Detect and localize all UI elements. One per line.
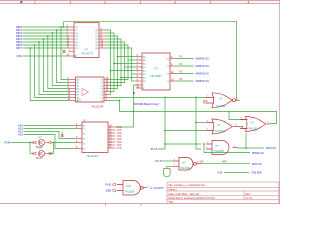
junction MD5 [38,41,40,43]
wire U5B out to U6 in2 [239,127,246,129]
sheet frame right edge [279,1,281,204]
junction MD3 [47,35,49,37]
wire to U5B input 1 [196,122,206,124]
wire net WR to U5 input [111,97,208,99]
U3 right pin name tags [117,126,122,150]
svg-text:WR: WR [200,161,204,164]
wire net RD long [120,101,230,112]
svg-text:2: 2 [104,0,106,4]
wire stub U5A in2 [203,102,206,104]
svg-text:PU.8: PU.8 [155,159,162,163]
wire rail 7 to U4 [132,80,136,82]
svg-text:74LS32: 74LS32 [215,129,225,133]
svg-text:A_CS-N0T: A_CS-N0T [150,186,164,190]
svg-text:PU8: PU8 [5,141,11,145]
wire PU8 to Q1 [11,142,31,144]
svg-text:MWR=JC: MWR=JC [252,151,264,155]
wire MD7 to U2 [30,48,68,101]
svg-text:NPL: NPL [17,54,23,58]
junction tap [203,143,205,145]
junction rail 4 [110,70,112,72]
svg-text:MD7: MD7 [16,46,22,50]
svg-text:U?: U? [78,98,82,102]
U4 strobe NC mark [133,92,135,94]
svg-text:KiCad E.D.A. eeschema (2013-0: KiCad E.D.A. eeschema (2013-07-07-bzr) [169,197,216,200]
junction feeder B in2 [164,130,166,132]
wire feeder x165 upper [164,98,166,131]
U3 left pin numbers [76,124,78,149]
wire A13 to U3 [24,128,76,130]
wire MD1 to U1 [23,29,69,31]
wire jog to U6 input 1 [229,112,246,120]
wire NPL to U1 clock [23,55,69,57]
svg-text:U?: U? [154,67,158,71]
U4 left pins [136,57,143,89]
svg-text:74LS273: 74LS273 [81,51,93,55]
wire U7 out up [245,133,247,148]
wire A12 to U3 [24,132,76,139]
junction Y7 [119,100,121,102]
wire cup to U8 in2 [167,166,173,168]
wire U4 Y3 [177,80,194,82]
sheet frame bottom line [0,204,280,206]
junction PU8 tap [164,143,166,145]
U2 left pins [69,80,76,101]
wire MD1 to U2 [57,30,69,83]
svg-text:Rev:: Rev: [246,193,251,196]
svg-text:BC307: BC307 [36,158,44,160]
transistor Q1 cluster upper [30,141,36,144]
U3 NC flag [61,135,64,138]
U4 right pin numbers [171,57,174,82]
gate U9 74LS00 [117,181,147,196]
wire U4 pin15 down [134,85,136,112]
U3 left pins [75,126,82,149]
wire A.B to JTB.MW [224,172,249,174]
wire to label PU.8 [158,144,165,149]
svg-text:U?: U? [217,123,221,127]
wire rail 0 to U4 [118,56,136,58]
title block [167,182,279,204]
wire MD3 to U1 [23,35,69,37]
junction MD1 [56,29,58,31]
wire A14 to U3 [24,125,76,127]
svg-text:U?: U? [215,144,219,148]
wire U1 Q4 down to U2 [106,42,125,83]
U1 right pin names [95,30,99,50]
svg-text:MWD1=JC: MWD1=JC [196,64,210,68]
wire U4 Y1 [177,65,194,67]
wire Q2 join [53,143,55,154]
svg-text:U?: U? [219,97,223,101]
wire U3 O0 up [115,112,134,128]
transistor Q2 cluster lower [30,152,36,155]
U9 input global label arrows [112,183,115,186]
U4 right pins [170,59,177,82]
svg-text:U?: U? [251,121,255,125]
wire MD2 to U2 [52,33,68,86]
svg-text:WR: WR [203,100,207,103]
wire U7 out [238,147,264,149]
junction MD4 [43,38,45,40]
svg-text:U?A: U?A [126,184,131,188]
gate U5B 74LS02 [206,119,239,134]
wire feeder x196 upper [195,98,197,123]
junction RD net [133,111,135,113]
wire MD3 to U2 [48,36,69,89]
U1 left pin names [75,27,79,50]
svg-text:MORM.Bank=img2: MORM.Bank=img2 [134,102,159,106]
wire tap up [63,22,65,27]
junction MD2 [51,32,53,34]
junction Q out [53,142,55,144]
wire rail 3 to U4 [125,66,136,68]
wire rail 5 to U4 [132,73,136,75]
svg-text:MW=JC: MW=JC [266,146,276,150]
U3 right pin numbers [109,126,112,149]
IC U4 74LS257 body [142,53,170,90]
wire to U7 input 2 [196,123,201,150]
IC U1 74LS273 body [74,23,99,58]
wire to U7 input 1 [165,131,201,145]
svg-text:Title:: Title: [169,201,175,204]
svg-text:Date: 4 feb 2014 Size: A4: Date: 4 feb 2014 Size: A4 [169,193,200,196]
junction MD0 [60,26,62,28]
svg-text:74LS32: 74LS32 [248,126,258,130]
wire U1 Q0 down to U2 [106,30,111,95]
svg-text:Id: 1/1: Id: 1/1 [246,197,254,200]
U3 right pins [108,127,115,148]
U1 right pin numbers [101,29,104,49]
svg-text:A.B: A.B [217,171,222,175]
svg-text:Sheet: /: Sheet: / [169,188,178,191]
wire U6 output wrap [229,112,277,124]
wire tap to label [204,144,250,153]
svg-text:MWD0=JC: MWD0=JC [196,57,210,61]
svg-text:MWD3=JC: MWD3=JC [196,79,210,83]
wire U4 Y2 [177,73,194,75]
wire U1 Q5 down to U2 [106,45,129,80]
svg-text:MW=JC: MW=JC [252,162,262,166]
U1 left pin numbers [67,26,70,57]
wire MD4 to U1 [23,38,69,40]
svg-text:WR/: WR/ [222,161,227,164]
junction WR at x196 [195,97,197,99]
junction PU8 split [29,142,31,144]
wire MD0 to U1 [23,26,69,28]
wire rail 2 to U4 [114,63,136,65]
wire Q2 out [48,153,54,155]
svg-text:A11: A11 [18,133,23,137]
U2 left pin names [77,78,80,102]
wire rail 1 to U4 [128,59,136,61]
wire MD5 to U2 [39,42,69,95]
gate U6 74LS32 [240,117,270,132]
junction B in1 [195,122,197,124]
wire down to Q2 row [29,143,31,154]
wire feedback to U5 output [64,22,237,101]
junction MD0 feedback tap [63,26,65,28]
junction MD7 [29,47,31,49]
U2 right pin names [100,79,103,102]
wire to U5B input 2 [165,130,206,132]
svg-text:74LS257: 74LS257 [150,74,162,78]
svg-text:74LS02: 74LS02 [216,104,226,108]
wire MD4 to U2 [43,39,68,92]
IC U2 74LS244 body [76,77,105,102]
svg-text:74LS00: 74LS00 [125,190,135,194]
sheet frame top band [0,1,280,4]
gate U8 74LS00 [173,158,202,171]
frame corner mark [21,1,23,3]
wire PU.8 to U8 [162,160,173,162]
wire U4 Y0 [177,58,194,60]
junction rail 6 [120,77,122,79]
U1 right pins [99,30,106,48]
junction rail 0 [117,56,119,58]
svg-text:3: 3 [174,0,176,4]
junction rail 2 [113,63,115,65]
svg-text:PU8: PU8 [106,183,112,187]
wire rail 4 to U4 [111,70,136,72]
svg-text:74LS240: 74LS240 [86,154,98,158]
junction WR at x165 [164,97,166,99]
svg-text:S3B: S3B [106,189,111,193]
wire A11 to U3 [24,135,76,149]
svg-text:U?: U? [83,118,87,122]
power cup symbol [163,169,170,177]
wire MD2 to U1 [23,32,69,34]
frame column numerals top [34,0,250,4]
svg-text:74LS244: 74LS244 [91,104,104,108]
wire U2 Y7 [111,100,120,102]
wire MD6 to U2 [35,45,69,98]
U2 right pin numbers [106,78,109,101]
wire MD6 to U1 [23,44,69,46]
wire U8 out [202,163,250,165]
U4 right pin names [166,58,169,83]
svg-text:U?: U? [182,160,186,164]
U1 reset pin NC flag [63,50,75,53]
wire MD5 to U1 [23,41,69,43]
wire U1 Q3 down to U2 [106,39,122,86]
gate U5A 74LS02 [206,93,240,108]
U4 left pin names [143,55,146,90]
svg-text:O7D: O7D [117,147,122,150]
U3 left pin names [83,125,86,150]
IC U3 74LS240 body [82,122,108,153]
svg-text:74LS00: 74LS00 [180,166,190,170]
svg-text:MWD2=JC: MWD2=JC [196,72,210,76]
wire MD0 to U2 [61,27,69,80]
svg-text:1: 1 [34,0,36,4]
U2 left pin numbers [68,78,71,101]
U2 right pins [104,80,111,101]
junction MD6 [34,44,36,46]
svg-text:JTB.MW: JTB.MW [251,171,262,175]
wire U1 Q6 down [106,48,132,81]
junction U7 out [245,147,247,149]
wire U1 Q1 down to U2 [106,33,115,92]
wire Q1 out to U3 [54,142,76,144]
gate U7 74LS08 [206,141,238,155]
U4 left pin numbers [137,55,140,89]
U1 left pins [68,27,74,56]
svg-text:4: 4 [248,0,250,4]
svg-text:PU.8: PU.8 [151,147,158,151]
wire rail 6 to U4 [121,77,136,79]
svg-text:File: interface_u_customized.s: File: interface_u_customized.sch [169,184,206,187]
U1 clock triangle [74,55,76,57]
wire MD7 to U1 [23,47,69,49]
U2 buffer triangle [82,89,89,96]
wire U1 Q2 down to U2 [106,36,118,89]
